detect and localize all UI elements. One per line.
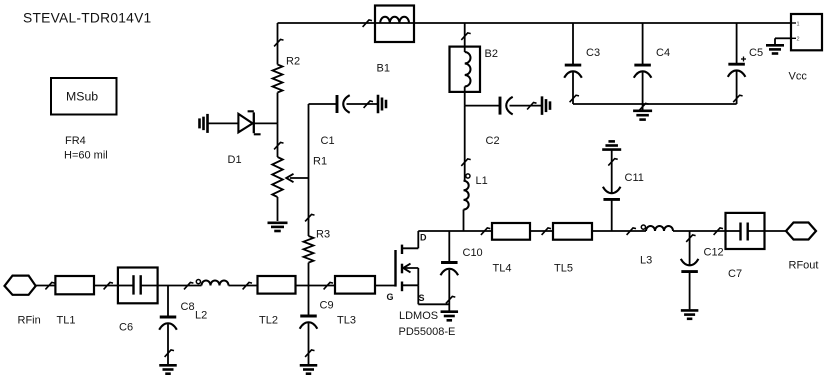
potentiometer R1 [272,123,327,221]
ground (D1 anode) [200,114,208,133]
port RFout [786,223,818,272]
title text STEVAL-TDR014V1 [23,11,151,26]
wire C7 to RFout [765,230,787,232]
capacitor C1 [309,95,379,147]
capacitor C2 [465,97,542,147]
svg-text:L3: L3 [640,255,652,267]
svg-text:2: 2 [797,37,800,43]
svg-text:MSub: MSub [66,90,98,104]
svg-text:LDMOS: LDMOS [399,310,438,322]
wire TL2 to TL3 (node C9) [296,282,336,289]
zener diode D1 [208,111,278,166]
ground (C1 right) [378,95,386,114]
capacitor C12 [681,231,724,309]
capacitor C7 (boxed) [726,213,765,280]
svg-text:C7: C7 [728,268,742,280]
inductor L1 [461,106,487,231]
capacitor C4 [634,23,670,111]
wire drain rail [418,228,492,235]
svg-text:D1: D1 [228,154,242,166]
svg-text:B2: B2 [485,48,498,60]
svg-text:C4: C4 [656,47,670,59]
resistor R3 [304,229,331,286]
port RFin [5,276,41,327]
capacitor C11 [603,150,644,231]
svg-text:FR4: FR4 [65,135,86,147]
capacitor C10 [441,231,483,311]
svg-text:L1: L1 [476,175,488,187]
svg-text:C9: C9 [320,300,334,312]
transmission line TL1 [55,276,94,327]
svg-text:C2: C2 [486,135,500,147]
wire TL4 to TL5 [530,228,553,235]
wire RFin to TL1 [36,282,56,289]
ground (R1 bottom) [268,223,288,231]
transistor Q1 LDMOS PD55008-E [387,231,456,338]
capacitor C9 [300,286,334,365]
svg-text:C8: C8 [181,301,195,313]
inductor L3 [640,225,673,267]
connector Vcc [775,14,822,83]
svg-text:TL1: TL1 [57,315,76,327]
wire C6 to L2 (node C8) [158,282,202,289]
capacitor C5 [728,23,763,104]
capacitor C3 [564,23,600,104]
svg-text:TL2: TL2 [259,315,278,327]
wire TL5 to L3 (node C11) [592,228,646,235]
svg-text:TL3: TL3 [337,315,356,327]
svg-text:C5: C5 [749,47,763,59]
inductor L2 [195,280,229,322]
svg-text:TL5: TL5 [554,263,573,275]
svg-text:C12: C12 [704,247,724,259]
svg-text:R2: R2 [286,56,300,68]
capacitor C6 (boxed) [118,268,158,334]
transmission line TL2 [258,276,296,327]
svg-text:C10: C10 [463,247,483,259]
svg-text:S: S [419,293,425,303]
ground (C12 bottom) [681,310,699,318]
svg-text:Vcc: Vcc [789,71,808,83]
wire TL1 to C6 [94,282,118,289]
inductor B1 [363,6,414,75]
wire decoupling ground rail [573,103,737,105]
svg-text:H=60 mil: H=60 mil [64,150,108,162]
wire top supply rail [278,22,792,24]
svg-text:RFin: RFin [18,315,41,327]
wire TL3 to gate [375,285,396,287]
svg-text:C11: C11 [625,172,644,184]
svg-text:STEVAL-TDR014V1: STEVAL-TDR014V1 [23,11,151,26]
wire L3 to C7 (node C12) [673,228,726,235]
svg-text:B1: B1 [377,63,390,75]
svg-text:G: G [387,292,394,302]
transmission line TL5 [553,223,592,275]
svg-text:1: 1 [797,22,800,28]
ground (C9 bottom) [300,365,318,373]
transmission line TL4 [492,223,530,275]
resistor R2 [273,23,301,123]
svg-text:C1: C1 [321,135,335,147]
svg-text:TL4: TL4 [493,263,512,275]
ground (C11 top) [602,141,621,149]
ground (C4 bottom) [633,111,652,120]
wire C1/R1 wiper column [305,104,314,236]
ground (C8 bottom) [159,365,177,373]
svg-text:R3: R3 [316,229,330,241]
ground (C2 right) [542,96,550,115]
wire L2 to TL2 [229,282,258,289]
svg-text:C6: C6 [119,322,133,334]
ground (Vcc pin 2) [766,45,784,53]
substrate definition MSub (FR4 H=60 mil) [51,78,117,162]
svg-text:L2: L2 [195,310,207,322]
svg-text:RFout: RFout [789,260,819,272]
ground (C10 source) [441,312,459,321]
svg-text:PD55008-E: PD55008-E [399,326,456,338]
transmission line TL3 [335,276,375,327]
svg-text:R1: R1 [313,156,327,168]
svg-text:D: D [420,233,427,243]
capacitor C8 [159,286,194,365]
svg-text:C3: C3 [586,47,600,59]
inductor B2 [450,23,498,106]
